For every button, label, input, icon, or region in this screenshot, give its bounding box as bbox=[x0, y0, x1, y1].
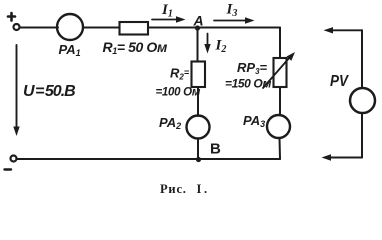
ammeter PA1 bbox=[57, 14, 83, 40]
wire bbox=[83, 27, 120, 29]
svg-text:PA1: PA1 bbox=[59, 42, 81, 58]
svg-text:PV: PV bbox=[330, 73, 349, 90]
node A bbox=[195, 25, 200, 30]
current arrow I2 bbox=[204, 34, 210, 54]
voltage arrow U bbox=[13, 45, 19, 136]
svg-text:RP3=: RP3= bbox=[237, 60, 268, 76]
voltmeter lead arrow (bottom) bbox=[322, 154, 363, 160]
svg-text:U=50.В: U=50.В bbox=[23, 83, 75, 100]
terminal + bbox=[14, 24, 20, 30]
wire bbox=[20, 27, 58, 29]
resistor R1 bbox=[120, 22, 149, 35]
wire (top rail corner down to RP3) bbox=[279, 28, 281, 59]
wire (R2 to PA2) bbox=[197, 87, 199, 116]
ammeter PA2 bbox=[187, 116, 210, 139]
svg-text:I1: I1 bbox=[161, 2, 173, 20]
current arrow I3 bbox=[214, 17, 255, 23]
svg-text:A: A bbox=[193, 13, 204, 29]
wire (RP3 to PA3) bbox=[279, 87, 281, 115]
current arrow I1 bbox=[152, 16, 186, 22]
svg-text:Рис.I.: Рис.I. bbox=[160, 182, 210, 196]
svg-text:R2=: R2= bbox=[170, 66, 190, 82]
svg-text:=100 Ом: =100 Ом bbox=[156, 87, 201, 99]
svg-text:R1= 50 Ом: R1= 50 Ом bbox=[103, 39, 169, 56]
svg-text:=150 Ом: =150 Ом bbox=[225, 77, 271, 91]
wire (voltmeter branch) bbox=[361, 30, 363, 157]
svg-text:PA2: PA2 bbox=[159, 115, 181, 131]
svg-text:I3: I3 bbox=[226, 2, 238, 20]
voltmeter PV bbox=[350, 88, 375, 113]
terminal - bbox=[11, 156, 17, 162]
ammeter PA3 bbox=[267, 115, 290, 138]
wire (node A down to R2) bbox=[197, 28, 199, 62]
rheostat RP3 bbox=[263, 52, 295, 88]
label - (negative terminal) bbox=[5, 168, 12, 170]
wire bbox=[148, 27, 280, 29]
svg-text:В: В bbox=[210, 141, 221, 158]
wire (PA3 to bottom rail) bbox=[279, 138, 282, 159]
wire (bottom rail) bbox=[17, 158, 280, 160]
label + (positive terminal) bbox=[8, 13, 15, 21]
svg-text:I2: I2 bbox=[215, 38, 227, 56]
node B bbox=[196, 157, 201, 162]
voltmeter lead arrow (top) bbox=[324, 27, 363, 33]
svg-text:PA3: PA3 bbox=[243, 113, 265, 129]
wire (PA2 to node B) bbox=[197, 139, 199, 160]
resistor R2 bbox=[192, 62, 206, 88]
